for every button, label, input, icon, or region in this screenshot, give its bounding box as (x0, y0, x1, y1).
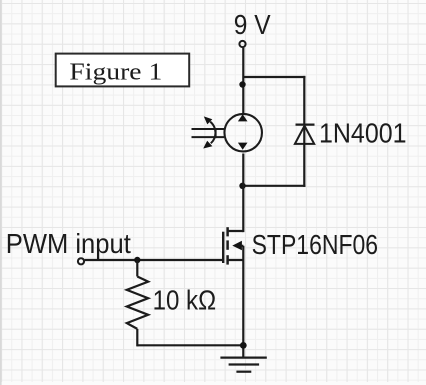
wire 9V terminal to motor top (242, 48, 244, 114)
motor M1 (192, 114, 262, 152)
svg-text:9 V: 9 V (234, 8, 271, 40)
junction dot motor bottom (239, 183, 245, 189)
label PWM input (6, 227, 131, 259)
wire motor bottom to MOSFET drain (242, 154, 244, 233)
PWM input terminal (78, 258, 84, 264)
label 1N4001 (319, 116, 407, 148)
svg-text:STP16NF06: STP16NF06 (252, 228, 379, 260)
junction dot resistor top (134, 257, 140, 263)
node 9V supply label (234, 8, 271, 40)
wire MOSFET source down (242, 246, 244, 358)
svg-text:PWM input: PWM input (6, 227, 131, 259)
resistor R1 (127, 260, 148, 346)
junction dot source node (240, 342, 247, 349)
wire diode branch vertical upper (303, 76, 305, 124)
svg-text:10 kΩ: 10 kΩ (153, 283, 217, 315)
9V terminal (239, 41, 245, 47)
diode D1 1N4001 (295, 125, 315, 144)
wire bottom branch horizontal (243, 185, 306, 187)
wire resistor bottom to source node (137, 344, 243, 346)
svg-text:Figure 1: Figure 1 (69, 59, 162, 85)
junction dot top (239, 81, 245, 87)
wire diode branch vertical lower (303, 126, 305, 187)
Figure 1 annotation box (56, 54, 190, 87)
transistor Q1 STP16NF06 (223, 227, 243, 264)
wire top branch horizontal to diode (243, 76, 305, 78)
svg-text:1N4001: 1N4001 (319, 116, 407, 148)
label STP16NF06 (252, 228, 379, 260)
ground (220, 358, 266, 372)
wire PWM input to gate (85, 259, 224, 261)
label 10 kOhm (153, 283, 217, 315)
